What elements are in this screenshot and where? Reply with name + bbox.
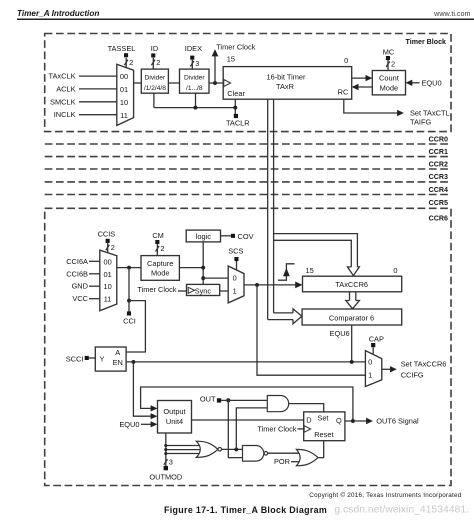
svg-text:CCIFG: CCIFG <box>401 370 424 379</box>
wire RC to TAIFG <box>344 99 400 113</box>
svg-text:IDEX: IDEX <box>185 44 202 53</box>
svg-text:CCR2: CCR2 <box>429 161 448 169</box>
svg-text:TAxCCR6: TAxCCR6 <box>335 280 368 289</box>
svg-text:CCR4: CCR4 <box>429 186 448 194</box>
svg-text:logic: logic <box>196 232 212 241</box>
svg-text:2: 2 <box>391 60 395 69</box>
node OUTMOD <box>164 466 168 470</box>
nand gate G3 <box>243 445 264 461</box>
svg-text:Reset: Reset <box>314 430 333 439</box>
wire nor out <box>222 448 243 450</box>
wire outmod bit lines to nor <box>166 445 199 447</box>
wire mux to divider1 <box>134 82 142 84</box>
svg-text:15: 15 <box>227 55 235 64</box>
svg-text:2: 2 <box>156 58 160 67</box>
wire TACLR horizontal <box>154 107 235 109</box>
node COV <box>231 234 235 238</box>
svg-text:CCI6B: CCI6B <box>66 269 88 278</box>
output unit4 box <box>158 401 192 434</box>
Timer Block dashed border <box>45 34 451 132</box>
bus-width slash 2 on ID <box>151 60 155 66</box>
wire ribbon lower to comparator <box>268 319 293 321</box>
wire divider2 bottom stub <box>195 93 197 107</box>
svg-text:Count: Count <box>379 74 399 83</box>
svg-text:Timer Clock: Timer Clock <box>137 285 176 294</box>
wire TAxCLK to mux <box>79 75 117 77</box>
wire CCIS to mux <box>107 243 109 253</box>
svg-text:Timer Clock: Timer Clock <box>257 425 296 434</box>
count mode box U2 <box>372 71 405 95</box>
junction timer clock <box>213 81 217 85</box>
svg-text:SMCLK: SMCLK <box>50 97 76 106</box>
wire timer bus vertical right <box>273 99 275 313</box>
svg-text:2: 2 <box>129 58 133 67</box>
svg-text:TAxCLK: TAxCLK <box>49 72 76 81</box>
open arrow into comparator <box>293 309 302 324</box>
svg-text:Timer_A Introduction: Timer_A Introduction <box>17 9 99 18</box>
arrow OUT6 signal <box>366 418 373 424</box>
arrow EN into output unit <box>151 413 158 419</box>
wire capture mode out <box>179 267 203 269</box>
junction nor nand <box>234 447 238 451</box>
svg-text:CCI: CCI <box>123 316 136 325</box>
arrow timer clock up <box>212 49 219 56</box>
wire EQU0 to output unit <box>141 423 152 425</box>
svg-text:RC: RC <box>338 87 349 96</box>
wire Q out <box>345 420 367 422</box>
svg-text:ID: ID <box>151 44 158 53</box>
divider D1 /1/2/4/8 <box>141 69 168 93</box>
node TACLR <box>234 114 238 118</box>
svg-text:CCR3: CCR3 <box>429 173 448 181</box>
svg-text:SCS: SCS <box>228 246 243 255</box>
svg-text:EQU0: EQU0 <box>422 79 442 88</box>
wire ribbon inner to TAxCCR6 <box>273 240 351 267</box>
bus-width slash 2 on CCIS <box>106 245 110 251</box>
arrow into count mode <box>366 75 373 81</box>
capture edge symbol <box>278 264 295 280</box>
wire CAP mux out <box>382 368 393 370</box>
mux TASSEL clock-select <box>117 64 134 125</box>
svg-text:OUTMOD: OUTMOD <box>149 473 182 482</box>
wire TASSEL to mux <box>125 58 127 68</box>
svg-text:A: A <box>115 348 120 357</box>
wire CAP to mux <box>372 347 374 354</box>
wire ribbon upper to comparator <box>274 312 293 314</box>
wire capture to CAP mux 1 <box>257 285 365 375</box>
svg-text:INCLK: INCLK <box>54 110 76 119</box>
svg-text:Mode: Mode <box>151 269 170 278</box>
sync box <box>187 284 220 295</box>
svg-text:Comparator 6: Comparator 6 <box>329 313 374 322</box>
svg-text:CCR5: CCR5 <box>429 199 448 207</box>
svg-text:ACLK: ACLK <box>56 84 75 93</box>
mux CCIS input-select <box>100 250 117 311</box>
svg-text:Set TAxCTL: Set TAxCTL <box>410 109 450 118</box>
and gate G2 <box>267 396 288 412</box>
svg-text:Copyright © 2016, Texas Instru: Copyright © 2016, Texas Instruments Inco… <box>309 491 461 499</box>
svg-text:Capture: Capture <box>147 259 173 268</box>
ground GND wire <box>89 285 100 287</box>
wire timer clock to sync <box>178 290 187 292</box>
logic box <box>186 230 220 242</box>
wire OUT to and <box>221 399 267 401</box>
arrow EQU0 into count mode <box>406 80 413 86</box>
bus-width slash 2 on MC <box>386 61 390 67</box>
wire TACLR to Clear <box>234 99 236 114</box>
flipflop D Set Reset <box>304 412 345 441</box>
wire timer clock up <box>214 56 216 84</box>
svg-text:2: 2 <box>111 243 115 252</box>
svg-text:00: 00 <box>103 257 111 266</box>
wire CCI down <box>128 268 130 312</box>
wire output unit to D <box>192 419 304 421</box>
wire EQU0 to count mode <box>410 82 420 84</box>
svg-text:www.ti.com: www.ti.com <box>433 9 470 18</box>
svg-text:CCI6A: CCI6A <box>66 257 88 266</box>
svg-text:OUT6 Signal: OUT6 Signal <box>376 417 419 426</box>
svg-text:0: 0 <box>368 358 372 367</box>
CCR6 dashed border <box>45 208 451 485</box>
junction CCI to A <box>127 299 131 303</box>
wire nand to or <box>268 452 301 454</box>
junction divider2 TACLR <box>194 106 198 110</box>
junction OUT <box>226 398 230 402</box>
wire EQU6 down <box>351 325 353 362</box>
clock input triangle on timer <box>224 80 231 87</box>
svg-text:0: 0 <box>344 56 348 65</box>
svg-text:Divider: Divider <box>184 75 205 82</box>
svg-text:SCCI: SCCI <box>66 354 84 363</box>
wire INCLK to mux <box>79 114 117 116</box>
junction EN drop <box>131 360 135 364</box>
svg-text:EQU6: EQU6 <box>330 329 350 338</box>
svg-text:Sync: Sync <box>195 286 212 295</box>
svg-text:0: 0 <box>393 266 397 275</box>
open arrow into TAxCCR6 top <box>347 267 359 276</box>
svg-text:0: 0 <box>233 274 237 283</box>
svg-text:VCC: VCC <box>72 294 88 303</box>
wire SCCI to Y <box>89 357 96 359</box>
wire EQU6 EN line <box>126 361 365 363</box>
clock triangle on flipflop <box>304 426 310 433</box>
arrow Set TAxCCR6 CCIFG <box>390 366 397 372</box>
svg-text:g.csdn.net/weixin_41534481.: g.csdn.net/weixin_41534481. <box>334 505 469 516</box>
junction capture path <box>255 283 259 287</box>
bus-width slash 2 on TASSEL <box>124 60 128 66</box>
svg-text:CCR6: CCR6 <box>429 214 448 222</box>
svg-text:/1/2/4/8: /1/2/4/8 <box>144 85 166 92</box>
svg-text:3: 3 <box>195 59 199 68</box>
comparator 6 <box>302 309 402 325</box>
wire timer bus vertical left <box>267 99 269 319</box>
svg-text:2: 2 <box>160 244 164 253</box>
wire MC to count mode <box>387 60 389 70</box>
wire divider1 to divider2 <box>168 82 179 84</box>
wire ribbon outer to TAxCCR6 <box>273 234 357 267</box>
wire OUTMOD up <box>165 433 167 466</box>
svg-text:15: 15 <box>306 266 314 275</box>
wire divider2 to timer <box>209 82 223 84</box>
wire POR to or <box>291 461 300 463</box>
svg-text:Output: Output <box>163 407 185 416</box>
register TAxCCR6 <box>303 276 402 292</box>
svg-text:EQU0: EQU0 <box>119 420 139 429</box>
svg-text:3: 3 <box>169 457 173 466</box>
svg-text:Timer Clock: Timer Clock <box>216 42 255 51</box>
svg-text:TACLR: TACLR <box>226 119 250 128</box>
wire SMCLK to mux <box>79 101 117 103</box>
CCR separator dashed lines <box>45 143 451 145</box>
bus-width slash 3 on OUTMOD <box>164 459 168 465</box>
junction to SCS 0 <box>201 276 205 280</box>
latch Y A EN <box>95 347 126 371</box>
svg-text:GND: GND <box>72 282 88 291</box>
wire IDEX to divider2 <box>191 60 193 69</box>
svg-text:11: 11 <box>120 111 128 120</box>
svg-text:CCR0: CCR0 <box>429 135 448 143</box>
svg-text:CAP: CAP <box>369 335 384 344</box>
bus-width slash 2 on CM <box>156 246 160 252</box>
header rule <box>17 18 474 20</box>
wire nor out up to and <box>236 408 267 450</box>
mux SCS <box>228 266 244 303</box>
wire timer clock to flipflop <box>298 428 304 430</box>
svg-text:01: 01 <box>120 85 128 94</box>
power VCC wire <box>89 298 100 300</box>
svg-text:Set TAxCCR6: Set TAxCCR6 <box>401 359 447 368</box>
node CCI <box>127 311 131 315</box>
svg-text:TAxR: TAxR <box>276 82 294 91</box>
mux CAP <box>365 351 381 387</box>
svg-text:11: 11 <box>104 295 112 304</box>
wire logic to COV <box>221 235 231 237</box>
svg-text:Y: Y <box>100 355 105 364</box>
svg-text:10: 10 <box>120 98 128 107</box>
svg-text:Unit4: Unit4 <box>166 417 183 426</box>
junction Q feedback <box>351 419 355 423</box>
junction EQU6 <box>350 360 354 364</box>
wire ID to divider1 <box>152 58 154 69</box>
svg-text:Divider: Divider <box>145 75 166 82</box>
svg-text:/1.../8: /1.../8 <box>186 85 203 92</box>
arrow into timer RC <box>352 84 359 90</box>
block arrow TAxCCR6 to comparator <box>349 292 351 301</box>
svg-text:OUT: OUT <box>200 394 216 403</box>
wire OUT down to nand <box>228 400 242 457</box>
wire SCS mux out to TAxCCR6 <box>244 284 297 286</box>
svg-text:00: 00 <box>120 72 128 81</box>
svg-text:EN: EN <box>113 358 123 367</box>
wire mux to capture mode <box>117 267 141 269</box>
wire timer to count mode <box>352 77 368 79</box>
svg-text:Figure 17-1. Timer_A Block Dia: Figure 17-1. Timer_A Block Diagram <box>164 505 327 515</box>
svg-text:TASSEL: TASSEL <box>108 44 136 53</box>
svg-text:16-bit Timer: 16-bit Timer <box>266 72 306 81</box>
wire logic down to sync <box>202 242 204 284</box>
junction capture logic <box>201 266 205 270</box>
svg-text:10: 10 <box>103 282 111 291</box>
svg-text:CCR1: CCR1 <box>429 148 448 156</box>
wire ACLK to mux <box>79 88 117 90</box>
capture mode box <box>141 256 179 281</box>
wire CM to capture mode <box>156 244 158 256</box>
wire EN drop to output unit <box>133 362 152 416</box>
svg-text:1: 1 <box>233 287 237 296</box>
svg-text:MC: MC <box>383 47 395 56</box>
wire and out to Set <box>289 404 324 412</box>
svg-text:Set: Set <box>317 414 328 423</box>
svg-text:CM: CM <box>152 231 164 240</box>
arrow EQU0 into output unit <box>151 421 158 427</box>
svg-text:TAIFG: TAIFG <box>410 117 431 126</box>
svg-text:CCIS: CCIS <box>98 229 116 238</box>
svg-text:Q: Q <box>336 416 342 425</box>
arrow Set TAxCTL TAIFG <box>397 110 404 116</box>
nor gate G1 <box>196 441 218 457</box>
wire CCI to A input <box>126 301 145 352</box>
wire SCS to mux <box>236 261 238 270</box>
node CCI6B wire <box>89 273 100 275</box>
node CCI6A wire <box>89 260 100 262</box>
svg-text:POR: POR <box>274 457 290 466</box>
divider D2 /1.../8 <box>180 69 210 93</box>
svg-text:1: 1 <box>368 370 372 379</box>
svg-text:D: D <box>306 416 311 425</box>
svg-text:Mode: Mode <box>380 83 399 92</box>
svg-text:Clear: Clear <box>227 89 245 98</box>
16-bit timer TAxR <box>223 67 352 100</box>
junction TACLR <box>233 106 237 110</box>
or gate G4 <box>296 449 318 465</box>
junction CCI <box>127 266 131 270</box>
wire divider1 bottom stub <box>153 93 155 107</box>
svg-text:Timer Block: Timer Block <box>406 38 447 46</box>
arrow feedback into output unit <box>151 405 158 411</box>
arrow into TAxCCR6 <box>295 282 302 289</box>
wire Q feedback loop <box>141 387 353 421</box>
bus-width slash 3 on IDEX <box>190 61 194 67</box>
wire sync to SCS mux 1 <box>220 290 228 292</box>
svg-text:COV: COV <box>238 232 254 241</box>
wire count mode to timer <box>356 86 372 88</box>
wire to SCS mux 0 <box>203 277 228 279</box>
wire or out to Reset <box>318 441 324 458</box>
svg-text:01: 01 <box>103 270 111 279</box>
